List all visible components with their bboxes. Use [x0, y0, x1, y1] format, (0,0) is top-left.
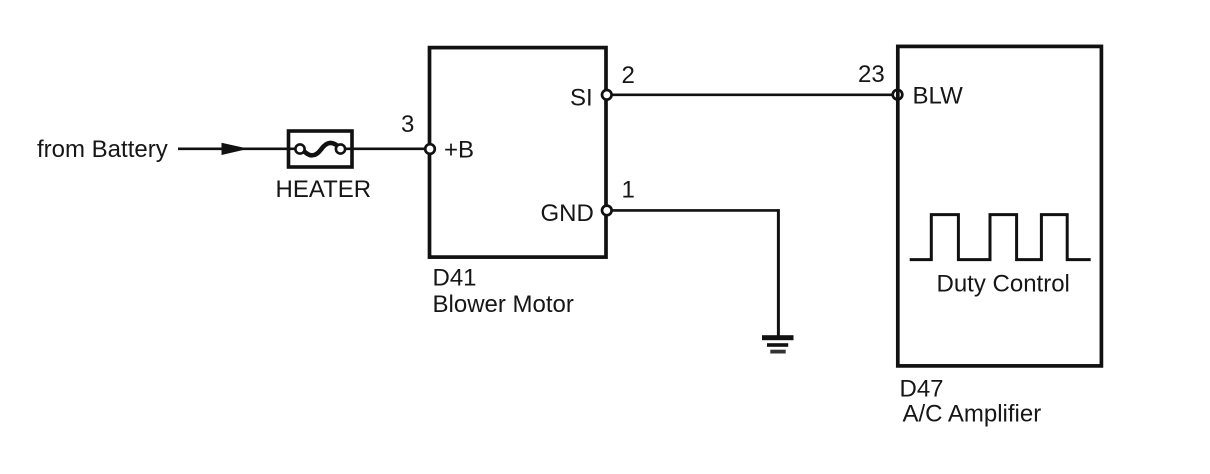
wire fuse to pin +B [342, 148, 430, 151]
fuse HEATER [289, 131, 353, 167]
wire from battery to fuse [178, 148, 298, 151]
svg-text:3: 3 [401, 111, 414, 138]
svg-text:BLW: BLW [913, 83, 964, 110]
svg-text:1: 1 [622, 176, 635, 203]
svg-text:HEATER: HEATER [276, 176, 372, 203]
svg-text:2: 2 [622, 62, 635, 89]
svg-text:Blower Motor: Blower Motor [433, 291, 574, 318]
pin BLW terminal [893, 90, 903, 100]
svg-text:GND: GND [541, 200, 594, 227]
svg-text:A/C Amplifier: A/C Amplifier [903, 401, 1042, 428]
pin GND terminal [602, 206, 612, 216]
component D47 A/C Amplifier box [898, 46, 1102, 366]
svg-text:D41: D41 [433, 265, 477, 292]
svg-text:SI: SI [570, 85, 593, 112]
pin SI terminal [602, 90, 612, 100]
svg-text:D47: D47 [900, 376, 944, 403]
wire GND vertical segment to ground [777, 209, 780, 336]
wire GND horizontal segment [612, 209, 779, 212]
ground [762, 335, 794, 353]
wire SI to BLW [612, 94, 894, 97]
svg-text:Duty Control: Duty Control [937, 271, 1070, 298]
pin +B terminal [425, 144, 435, 154]
component D41 Blower Motor box [430, 48, 607, 258]
duty control waveform [910, 215, 1091, 260]
svg-text:23: 23 [858, 61, 885, 88]
svg-text:from Battery: from Battery [37, 136, 168, 163]
svg-text:+B: +B [444, 136, 474, 163]
wire arrow [222, 143, 249, 155]
